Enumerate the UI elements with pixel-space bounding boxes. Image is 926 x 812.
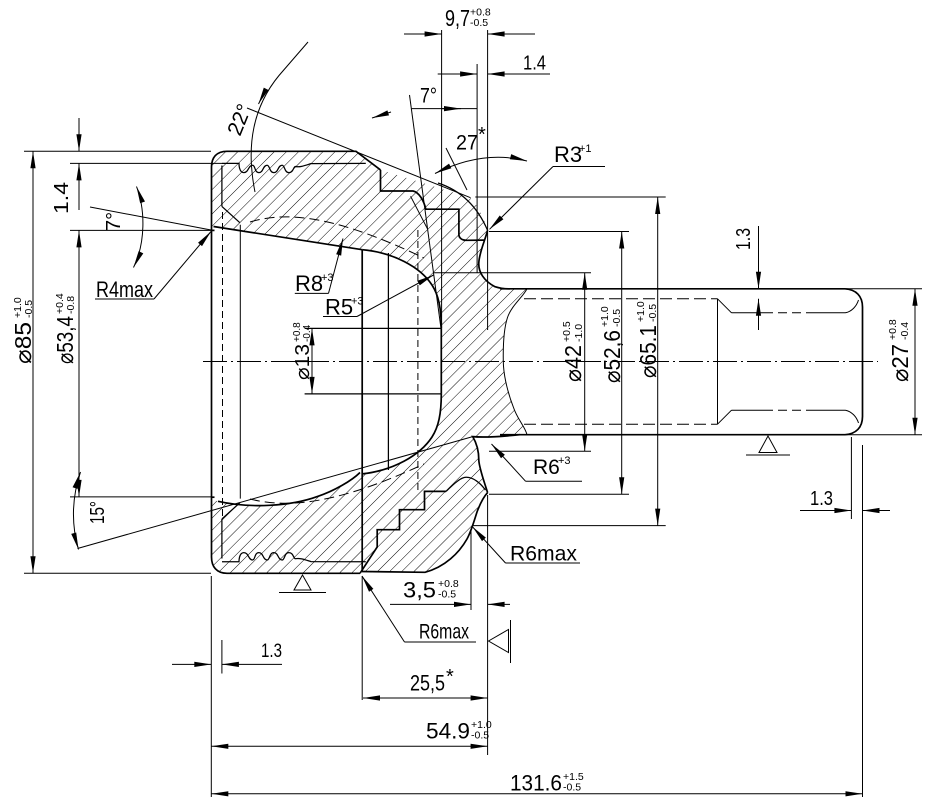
- 22 degree construction line: [247, 108, 471, 198]
- svg-text:-0.4: -0.4: [302, 324, 313, 342]
- svg-text:⌀65.1: ⌀65.1: [635, 325, 661, 378]
- extension line x=441.6 (9.7 left): [441, 30, 443, 328]
- dimension 7deg top: [412, 108, 477, 110]
- svg-text:+0.8: +0.8: [887, 319, 899, 340]
- leader R6+3: [526, 480, 583, 482]
- svg-text:-0.5: -0.5: [563, 782, 581, 794]
- svg-text:-0.5: -0.5: [438, 589, 456, 601]
- seal groove root line with scallops, bottom: [222, 553, 366, 562]
- boot groove staircase, bottom right: [360, 491, 446, 573]
- shaft end corner bottom: [845, 417, 863, 435]
- hatched cross-section, lower half of bell housing: [212, 362, 528, 574]
- leader R6max bottom: [405, 641, 477, 643]
- svg-text:⌀85: ⌀85: [10, 322, 36, 364]
- hub face extension downward (25.5): [361, 576, 363, 700]
- left face extension downward: [210, 576, 212, 797]
- ball track arc, top: [362, 250, 441, 329]
- leader R5: [323, 316, 357, 318]
- outer profile: bottom face of bell: [227, 572, 360, 574]
- svg-text:-0.5: -0.5: [647, 304, 659, 322]
- datum flag symbol: [489, 620, 511, 663]
- leader R8: [295, 292, 329, 294]
- shaft bottom line: [500, 434, 845, 436]
- bulge and undercut into shaft fillet, top: [479, 230, 510, 288]
- svg-text:⌀42: ⌀42: [560, 345, 586, 382]
- dimension diam 85 line: [32, 151, 34, 573]
- inner chamfer, bottom: [222, 503, 240, 519]
- leader R6max lower: [506, 562, 581, 564]
- svg-text:R6: R6: [533, 456, 560, 479]
- svg-text:+3: +3: [558, 455, 571, 467]
- extension lines diam 42: [433, 272, 591, 274]
- 15 degree construction line: [78, 437, 473, 549]
- extension line x=851.4 below shaft: [850, 437, 852, 519]
- dashed ball path arc, bottom: [250, 464, 424, 503]
- svg-text:+3: +3: [351, 296, 364, 308]
- dimension diam 42 line: [584, 273, 586, 452]
- dimension 1.3 bottom right: [800, 510, 851, 512]
- extension line x=862.5 below shaft: [862, 445, 864, 797]
- svg-text:*: *: [446, 666, 454, 688]
- dimension 25,5: [363, 697, 488, 699]
- dashed ball path arc, top: [250, 217, 424, 258]
- extension lines diam 52.6: [489, 231, 629, 233]
- bulge and undercut into shaft fillet, bottom: [473, 435, 520, 493]
- outer profile: top face of bell: [227, 151, 381, 170]
- leader R4max: [95, 298, 154, 300]
- extension line x=487.6 (9.7 right), top: [487, 30, 489, 330]
- svg-text:-0.8: -0.8: [65, 296, 77, 314]
- outer profile: left face of bell: [211, 167, 213, 557]
- svg-text:*: *: [478, 124, 486, 146]
- bell mouth outer curve, bottom: [362, 493, 488, 573]
- svg-text:1.3: 1.3: [733, 228, 755, 250]
- extension line x=487.6, bottom: [487, 495, 489, 755]
- crest between staircase and bulge, bottom: [446, 477, 485, 491]
- svg-text:-1.0: -1.0: [573, 324, 585, 342]
- cavity cone, top: [214, 227, 363, 250]
- svg-text:7°: 7°: [420, 85, 437, 108]
- svg-text:⌀52,6: ⌀52,6: [599, 330, 625, 383]
- spline root hidden line bottom: [524, 423, 718, 425]
- svg-text:9,7: 9,7: [445, 5, 470, 31]
- svg-text:-0.5: -0.5: [23, 300, 35, 318]
- 7 degree tilted face line, top: [410, 95, 442, 328]
- dimension diam 53.4 line: [78, 230, 80, 497]
- datum support symbol under shaft: [746, 436, 790, 455]
- 7 degree construction line, left: [90, 207, 213, 230]
- wavy break line right of section: [503, 289, 527, 435]
- thread root line top: [732, 312, 846, 314]
- thread end curl top: [846, 300, 859, 313]
- dimension diam 13: [311, 328, 313, 394]
- seal groove root line with scallops, top: [222, 163, 366, 172]
- extension lines diam 27: [845, 288, 922, 290]
- svg-text:R6max: R6max: [419, 621, 469, 644]
- svg-text:1.4: 1.4: [523, 53, 546, 75]
- svg-text:131.6: 131.6: [510, 771, 562, 796]
- center bore bottom edge: [305, 393, 442, 395]
- extension lines at left (diam 85): [24, 150, 211, 152]
- chamfer edge line: [239, 225, 241, 499]
- svg-text:R4max: R4max: [96, 277, 153, 302]
- shaft end face: [862, 307, 864, 417]
- hub second vertical: [387, 253, 389, 470]
- ball bulge upper branch, top: [438, 183, 488, 230]
- shaft end corner top: [845, 289, 863, 307]
- svg-text:⌀13: ⌀13: [292, 344, 314, 380]
- svg-text:R3: R3: [554, 142, 582, 167]
- svg-text:+1.0: +1.0: [635, 301, 647, 322]
- svg-text:⌀53,4: ⌀53,4: [52, 316, 78, 364]
- dimension 27deg arc: [435, 157, 527, 173]
- unsectioned center band (upper): [362, 250, 441, 362]
- svg-text:-0.5: -0.5: [611, 309, 623, 327]
- opening edge at left face, top: [212, 229, 215, 231]
- datum support symbol under bell: [279, 575, 326, 593]
- dimension 1.3 bottom left: [172, 663, 211, 665]
- inner groove wall vertical, bottom: [221, 519, 223, 559]
- dimension diam 65.1 line: [657, 197, 659, 526]
- hidden groove diameter line (dashed): [222, 212, 224, 516]
- dimension diam 52.6 line: [621, 232, 623, 495]
- dimension 22deg arc with leader: [251, 42, 308, 192]
- ball track arc, bottom: [362, 394, 441, 474]
- dimension 1.4 left: [78, 118, 80, 151]
- svg-text:1.3: 1.3: [261, 641, 282, 662]
- groove flank segment B: [446, 148, 467, 190]
- svg-text:25,5: 25,5: [410, 671, 445, 696]
- dimension 3,5: [390, 603, 471, 605]
- svg-text:R6max: R6max: [510, 543, 577, 566]
- center bore end wall: [440, 328, 442, 394]
- extension line y=163.4 left: [70, 162, 222, 164]
- svg-text:+3: +3: [321, 272, 334, 284]
- dimension 1.3 top right: [758, 226, 760, 289]
- thread runout wall: [717, 299, 719, 424]
- boot groove steps, top right: [381, 170, 485, 240]
- dimension 54.9: [211, 745, 487, 747]
- svg-text:27: 27: [456, 132, 478, 155]
- extension line x=471 (3.5): [470, 530, 472, 610]
- groove flank segment A: [411, 196, 428, 228]
- dimension 9,7 line: [404, 33, 442, 35]
- inner chamfer, top: [222, 206, 240, 222]
- extension lines at left (diam 53.4): [70, 229, 212, 231]
- svg-text:3,5: 3,5: [403, 578, 436, 603]
- svg-text:+1: +1: [579, 143, 592, 155]
- spline root hidden line top: [524, 298, 718, 300]
- dimension 7deg left arc: [134, 187, 143, 268]
- opening edge at left face, bottom: [212, 496, 215, 498]
- svg-text:+1.0: +1.0: [599, 306, 611, 327]
- unsectioned center band (lower): [362, 362, 441, 474]
- hatched cross-section, upper half of bell housing: [212, 151, 528, 361]
- outer profile: bottom-left corner radius: [212, 557, 228, 573]
- svg-text:1.4: 1.4: [51, 182, 73, 214]
- cavity dish, bottom: [218, 473, 360, 506]
- svg-text:15°: 15°: [87, 501, 109, 524]
- thread end curl bottom: [846, 410, 859, 423]
- inner groove wall vertical, top: [221, 166, 223, 207]
- center line of part: [203, 361, 878, 363]
- shaft top line: [500, 288, 845, 290]
- svg-text:1.3: 1.3: [810, 488, 833, 510]
- center bore top edge: [305, 327, 442, 329]
- thread root line bottom: [732, 409, 846, 411]
- dimension 1.4 top line: [438, 73, 477, 75]
- svg-text:-0.4: -0.4: [899, 322, 911, 340]
- dimension 131.6: [211, 793, 862, 795]
- leader R3: [553, 166, 605, 168]
- svg-text:7°: 7°: [103, 212, 125, 231]
- svg-text:R8: R8: [295, 271, 323, 296]
- svg-text:-0.5: -0.5: [470, 17, 488, 29]
- svg-text:⌀27: ⌀27: [887, 344, 913, 382]
- svg-text:+0.5: +0.5: [561, 321, 573, 342]
- svg-text:-0.5: -0.5: [471, 730, 489, 742]
- svg-text:R5: R5: [325, 295, 353, 320]
- dimension diam 27 line: [914, 289, 916, 435]
- svg-text:54.9: 54.9: [426, 719, 470, 744]
- hub inner face vertical: [361, 250, 363, 572]
- thread chamfer top: [718, 299, 732, 313]
- extension line x=221.9 bottom: [221, 640, 223, 674]
- thread chamfer bottom: [718, 410, 732, 424]
- hub hidden vertical (dashed): [417, 230, 419, 494]
- dimension 15deg arc: [73, 472, 80, 550]
- outer profile: top-left corner radius: [212, 151, 228, 167]
- extension lines diam 65.1: [475, 196, 665, 198]
- extension line x=477.1 (1.4 top): [476, 64, 478, 273]
